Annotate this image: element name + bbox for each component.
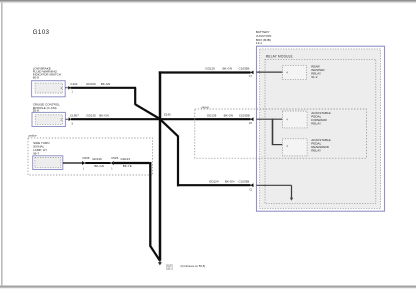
connector C1035B arrow top	[250, 71, 253, 75]
wire GD130 cruise to splice and on to BJB	[71, 118, 251, 120]
ground G103 arrow	[158, 260, 162, 265]
police option dashed box	[28, 138, 153, 175]
ground G103 label	[166, 264, 173, 271]
svg-text:BK-GN: BK-GN	[223, 67, 233, 71]
cruise control module label	[33, 102, 61, 112]
trunk wire from splice down to ground	[159, 71, 162, 260]
connector C1907 arrow	[65, 117, 71, 121]
wire labels C1907 GD130 BK-GN	[70, 114, 109, 118]
page top shadow band	[0, 0, 416, 3]
svg-text:GD123: GD123	[121, 157, 131, 161]
lamp pigtail wire	[63, 162, 82, 164]
svg-text:C1035B: C1035B	[238, 180, 249, 184]
svg-text:BK-YE: BK-YE	[123, 164, 132, 168]
connector C536 arrow	[82, 161, 85, 165]
connector C526 arrow	[111, 161, 114, 165]
svg-text:C526: C526	[111, 156, 119, 160]
svg-text:(4X4): (4X4)	[201, 105, 208, 109]
rear washer relay label	[311, 64, 325, 79]
svg-text:police: police	[28, 134, 37, 138]
4X4 option dashed box	[195, 109, 367, 158]
adjustable pedal rearward relay box	[282, 139, 307, 156]
svg-text:C1907: C1907	[70, 114, 79, 118]
page left border line	[1, 3, 2, 286]
svg-text:GD130: GD130	[92, 157, 102, 161]
svg-text:GD139: GD139	[207, 113, 217, 117]
svg-text:C536: C536	[82, 156, 90, 160]
relay module dashed box	[265, 59, 376, 203]
svg-text:GD130: GD130	[86, 114, 96, 118]
adjustable pedal forward relay label	[311, 111, 330, 126]
wire GD130 from switch	[71, 88, 161, 119]
connector C124 arrow	[65, 86, 71, 90]
wire GD123 BK-YE police to ground	[114, 162, 160, 260]
svg-text:GD124: GD124	[209, 180, 219, 184]
svg-text:RELAY: RELAY	[311, 148, 321, 152]
side turn signal lamp LH label	[33, 141, 49, 155]
page bottom shadow band	[0, 285, 416, 289]
svg-text:60-8: 60-8	[33, 75, 39, 79]
svg-text:91-2: 91-2	[311, 75, 317, 79]
wire into rear washer relay	[257, 71, 283, 73]
svg-text:RELAY: RELAY	[311, 121, 321, 125]
side turn signal lamp box	[33, 156, 63, 170]
rear washer relay box	[283, 65, 307, 79]
wire up from splice to BJB rear washer relay	[159, 71, 251, 73]
svg-text:BK-GN: BK-GN	[94, 164, 104, 168]
wire from splice diagonal down to BJB bottom feed	[160, 120, 250, 187]
connector C1035B arrow bottom	[250, 183, 253, 187]
cruise control module box	[32, 112, 65, 126]
svg-text:C1035B: C1035B	[239, 67, 250, 71]
police connector pins 1 1	[83, 168, 114, 171]
svg-text:C1035B: C1035B	[239, 113, 250, 117]
svg-text:GD129: GD129	[205, 67, 215, 71]
svg-text:GD130: GD130	[86, 82, 96, 86]
svg-text:BK-GN: BK-GN	[99, 114, 109, 118]
svg-text:96-7: 96-7	[33, 151, 39, 155]
top wire labels GD129 BK-GN C1035B	[205, 67, 249, 71]
svg-text:RELAY MODULE: RELAY MODULE	[266, 54, 293, 58]
connector C1035B arrow middle	[250, 117, 253, 121]
battery junction box label	[256, 30, 271, 45]
BJB inner dashed outline	[260, 49, 381, 209]
svg-text:(Continues on 59-5): (Continues on 59-5)	[181, 264, 206, 268]
adjustable pedal rearward relay label	[311, 138, 330, 152]
svg-text:13-1: 13-1	[256, 41, 262, 45]
low brake fluid warning indicator switch label	[33, 66, 61, 79]
svg-text:C124: C124	[70, 82, 78, 86]
svg-text:BK-GN: BK-GN	[225, 180, 235, 184]
BJB internal ground wire	[257, 185, 294, 201]
battery junction box outline	[257, 46, 385, 211]
police wire labels	[82, 156, 132, 168]
wire labels C124 GD130 BK-GN	[70, 82, 110, 86]
svg-text:151-2: 151-2	[166, 266, 173, 270]
adjustable pedal forward relay box	[282, 111, 307, 128]
middle wire labels GD139 BK-GN C1035B	[207, 113, 250, 117]
low brake fluid warning indicator switch box	[32, 81, 66, 97]
wire GD130 BK-GN police	[85, 162, 111, 164]
svg-text:BK-GN: BK-GN	[101, 82, 111, 86]
svg-text:BK-GN: BK-GN	[224, 113, 234, 117]
bottom wire labels GD124 BK-GN C1035B	[209, 180, 249, 184]
wire into adjustable pedal relays	[257, 119, 283, 145]
svg-text:G103: G103	[33, 29, 50, 36]
svg-text:S142: S142	[164, 113, 171, 117]
